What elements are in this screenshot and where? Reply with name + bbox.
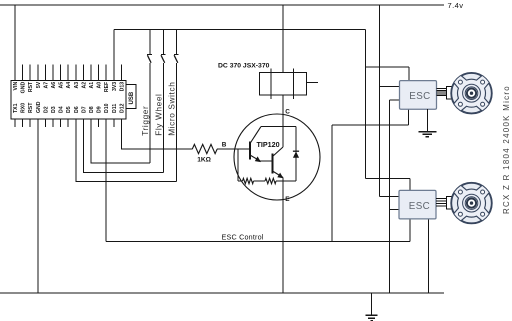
Q1 inner transistor 1 emitter arrow [255,156,261,162]
ESC U2 module [400,81,437,110]
wire motor M1 to collector [282,95,284,147]
wire R1 to base [217,148,250,150]
Q1 inner transistor 2 collector [273,147,284,157]
svg-text:ESC Control: ESC Control [222,233,264,242]
IC U1 bottom pin stubs [15,119,114,127]
svg-text:REF: REF [104,82,110,92]
svg-text:A6: A6 [51,82,57,89]
ground symbol under ESC U2 [418,109,436,137]
svg-text:Fly Wheel: Fly Wheel [154,94,164,136]
wire 3V3 to ESC2 top [366,178,411,191]
svg-text:A7: A7 [43,82,49,89]
svg-text:D6: D6 [74,106,80,113]
svg-text:D12: D12 [119,103,125,113]
wire emitter to ground bus [282,178,284,294]
svg-text:D10: D10 [104,103,110,113]
ground battery symbol [366,293,378,321]
svg-text:Micro Switch: Micro Switch [167,82,177,136]
svg-text:RCX Z R 1804 2400K Micro: RCX Z R 1804 2400K Micro [502,85,511,214]
wire ground to ESC1 left [390,99,400,101]
svg-text:DC 370 JSX-370: DC 370 JSX-370 [218,63,270,70]
svg-text:TX1: TX1 [13,103,19,113]
Q1 bottom rail [238,180,296,182]
wire ground to ESC2 left [390,208,400,210]
svg-text:A2: A2 [81,82,87,89]
wire D7 to Fly Wheel [83,119,163,173]
wire D10 to ESC Control bus [105,119,107,242]
svg-text:D13: D13 [119,82,125,92]
wires ESC U3 to connector J2 [436,199,447,207]
svg-text:D5: D5 [66,106,72,113]
wire ESC Control bus [106,241,410,243]
svg-text:A4: A4 [66,82,72,89]
svg-text:VIN: VIN [13,82,19,91]
wire 3V3 pin to switch bus [113,30,115,66]
svg-text:D4: D4 [59,106,65,113]
svg-text:D7: D7 [81,106,87,113]
wire ESC2 to ground bus [427,219,429,293]
wire D8 to Trigger [91,119,150,163]
wire 7.4v bus down to ESC left inputs [379,5,381,197]
svg-text:D11: D11 [112,104,118,113]
wire VIN to 7.4v bus [14,5,16,66]
wire D12 to resistor R1 [121,119,192,149]
wire ESC control riser [331,125,333,242]
svg-text:A0: A0 [97,82,103,89]
svg-text:RX0: RX0 [21,103,27,113]
motor M2 brushless outrunner [451,73,492,114]
wire control to ESC1 bottom [332,109,409,125]
svg-text:RST: RST [28,102,34,113]
transistor Q1 TIP120 circle [234,114,320,200]
IC U1 bottom pin labels [13,101,125,113]
svg-text:5V: 5V [36,81,42,88]
wire 7.4v to ESC1 left [380,85,400,87]
wire ground riser to ESC left inputs [389,100,391,293]
svg-text:ESC: ESC [409,91,430,102]
svg-text:D9: D9 [97,106,103,113]
Q1 internal top rail [261,126,296,128]
resistor R1 1KΩ [192,144,217,153]
svg-text:7.4v: 7.4v [448,1,464,10]
svg-text:D2: D2 [43,106,49,113]
connector J2 [447,197,455,210]
wire D6 to Micro Switch [76,119,177,182]
svg-text:1KΩ: 1KΩ [197,156,211,163]
motor M1 brush terminal left [270,69,272,99]
Q1 inner transistor 2 emitter [273,171,284,178]
Q1 internal diode symbol [293,150,299,152]
svg-text:A3: A3 [74,82,80,89]
Q1 inner transistor 2 base bar [272,154,274,174]
svg-text:B: B [222,142,227,149]
svg-text:D8: D8 [89,106,95,113]
IC U1 Arduino Nano body [11,81,126,120]
Q1 base-emitter riser [237,149,239,181]
svg-text:E: E [285,196,290,203]
connector J1 [447,87,455,100]
wire GND pin to ground bus [37,119,39,293]
wire 3V3 to ESC1 top [366,67,410,81]
svg-text:GND: GND [21,82,27,94]
switch S3 Micro Switch [174,30,179,182]
motor M1 brush terminal right [293,69,295,99]
svg-text:A5: A5 [59,82,65,89]
switch S2 Fly Wheel [161,30,166,173]
svg-text:Trigger: Trigger [140,106,150,136]
wire control bus up to ESC2 bottom [409,219,411,242]
wire ground bus [0,292,444,294]
Q1 inner transistor 2 emitter arrow [277,173,283,179]
motor M1 right stub [306,82,318,84]
wire 3V3 bus down to ESC tops [365,30,367,179]
motor M1 body [260,73,307,95]
IC U1 top pin labels [13,81,125,93]
wire 7.4v bus to motor M1 [282,5,284,73]
motor M3 brushless outrunner [451,182,492,223]
IC U1 top pin stubs [15,65,121,81]
Q1 inner transistor 1 emitter [250,155,261,161]
svg-text:3V3: 3V3 [112,82,118,91]
Q1 inner transistor 1 base bar [249,142,251,160]
switch S1 Trigger [147,30,152,163]
wire 7.4v top power bus [0,4,444,6]
Q1 internal diode branch [295,127,297,182]
Q1 internal resistor Rb2 [265,178,276,183]
wires ESC U2 to connector J1 [437,89,447,96]
connector USB on U1 [126,84,136,108]
svg-text:D3: D3 [51,106,57,113]
Q1 internal resistor Rb1 [243,178,254,183]
Q1 inner wire e1 to b2 [261,160,273,162]
wire 3V3 switch bus [114,29,366,31]
wire 7.4v to ESC2 left [380,196,400,198]
svg-text:ESC: ESC [409,201,430,212]
svg-text:TIP120: TIP120 [257,140,280,149]
svg-text:A1: A1 [89,82,95,89]
Q1 inner transistor 1 collector [250,127,261,144]
svg-text:GND: GND [36,101,42,113]
svg-text:USB: USB [129,91,135,104]
svg-text:RST: RST [28,81,34,92]
ESC U3 module [399,190,436,219]
